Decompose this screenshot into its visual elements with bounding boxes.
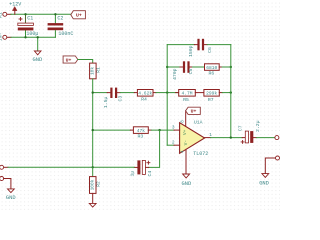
wire (78, 60, 93, 64)
wire feedback right vertical (230, 45, 232, 138)
svg-text:4.7M: 4.7M (181, 91, 192, 97)
svg-text:R4: R4 (141, 97, 147, 103)
junction (92, 129, 94, 131)
svg-text:C4: C4 (147, 171, 153, 177)
svg-text:U+: U+ (191, 109, 197, 115)
supply flag U+ bias (63, 56, 78, 63)
svg-text:470p: 470p (172, 68, 178, 80)
svg-text:C6: C6 (207, 47, 213, 53)
connector pin J3-1 (275, 136, 279, 140)
svg-text:100k: 100k (90, 179, 96, 190)
junction (166, 91, 168, 93)
wire bias vertical (92, 79, 94, 168)
svg-text:+12V: +12V (9, 2, 21, 8)
pin 8 power (185, 111, 187, 127)
junction (158, 129, 160, 131)
svg-text:1.5µ: 1.5µ (103, 97, 109, 109)
svg-text:4.62k: 4.62k (138, 91, 152, 97)
svg-text:TL072: TL072 (193, 151, 208, 157)
capacitor C2 (54, 14, 56, 37)
ground GND2 wire (4, 179, 11, 189)
junction (24, 13, 26, 15)
ground GND5 wire (265, 158, 275, 174)
capacitor C1 (25, 14, 27, 23)
svg-text:GND: GND (259, 181, 269, 187)
svg-text:3: 3 (172, 126, 175, 131)
resistor R3 (93, 129, 131, 131)
ground GND4 (183, 174, 190, 178)
svg-text:V-: V- (183, 140, 189, 146)
capacitor C7 (242, 137, 245, 139)
junction (166, 66, 168, 68)
junction (24, 36, 26, 38)
svg-text:U+: U+ (66, 57, 72, 63)
capacitor C6 (167, 44, 194, 46)
svg-text:2.2µ: 2.2µ (255, 120, 261, 132)
wire second rail (7, 36, 11, 38)
svg-text:V+: V+ (182, 129, 188, 135)
connector pin J1-2 (3, 35, 7, 39)
junction (92, 166, 94, 168)
junction (54, 13, 56, 15)
pin 3 (174, 129, 180, 131)
wire (195, 92, 204, 94)
junction (230, 91, 232, 93)
supply flag U+ top (71, 11, 86, 19)
svg-text:R7: R7 (208, 97, 214, 103)
resistor R6 (205, 64, 220, 71)
supply flag U+ opamp (186, 107, 201, 114)
svg-text:150p: 150p (188, 45, 194, 57)
supply symbol +12V (14, 10, 16, 15)
junction (92, 91, 94, 93)
svg-text:GND: GND (33, 57, 43, 63)
junction (230, 136, 232, 138)
ground GND1 (37, 37, 39, 51)
wire top rail +12V (7, 13, 11, 15)
svg-text:U+: U+ (76, 13, 82, 19)
svg-text:GND: GND (6, 195, 16, 201)
junction (230, 66, 232, 68)
svg-text:10k: 10k (90, 67, 96, 75)
svg-text:R1: R1 (96, 67, 102, 73)
svg-text:U1A: U1A (194, 120, 203, 126)
capacitor C3 (93, 92, 108, 94)
pin 2 (167, 144, 174, 146)
resistor R7 (204, 90, 219, 97)
svg-text:IN+: IN+ (0, 32, 4, 41)
wire C4 to noninverting input (149, 130, 160, 167)
connector pin J2-2 (0, 177, 4, 181)
ground GND3 (92, 193, 94, 203)
svg-text:K1: K1 (0, 12, 4, 18)
capacitor C5 (167, 66, 180, 68)
pin 1 (205, 137, 211, 139)
wire input row (3, 166, 8, 168)
svg-text:6810: 6810 (206, 65, 217, 71)
wire output row (211, 137, 243, 139)
svg-text:R3: R3 (138, 133, 144, 139)
resistor R4 (134, 92, 137, 94)
wire feedback left vertical (166, 45, 168, 146)
pin 4 power (185, 149, 187, 174)
svg-text:C3: C3 (117, 96, 123, 102)
svg-text:R2: R2 (95, 181, 101, 187)
op-amp U1A (180, 123, 205, 154)
resistor R5 (167, 92, 178, 94)
svg-text:C5: C5 (188, 69, 194, 75)
ground GND2 (8, 189, 15, 193)
svg-text:47k: 47k (137, 128, 146, 134)
svg-text:C2: C2 (57, 16, 63, 22)
svg-text:100µ: 100µ (26, 31, 38, 37)
connector pin J2-1 (0, 165, 4, 169)
svg-text:C7: C7 (238, 125, 244, 131)
svg-text:2: 2 (172, 141, 175, 146)
svg-text:100nC: 100nC (58, 31, 73, 37)
svg-text:C1: C1 (27, 16, 33, 22)
svg-text:R5: R5 (183, 97, 189, 103)
svg-text:299k: 299k (206, 91, 217, 97)
capacitor C4 (146, 166, 149, 168)
connector pin J1-1 (3, 12, 7, 16)
connector pin J3-2 (276, 156, 280, 160)
junction (37, 36, 39, 38)
svg-text:GND: GND (182, 181, 192, 187)
resistor R1 (90, 63, 97, 79)
svg-text:1µ: 1µ (129, 171, 135, 177)
svg-text:R6: R6 (209, 70, 215, 76)
resistor R2 (92, 167, 94, 176)
ground GND5 (262, 174, 269, 178)
